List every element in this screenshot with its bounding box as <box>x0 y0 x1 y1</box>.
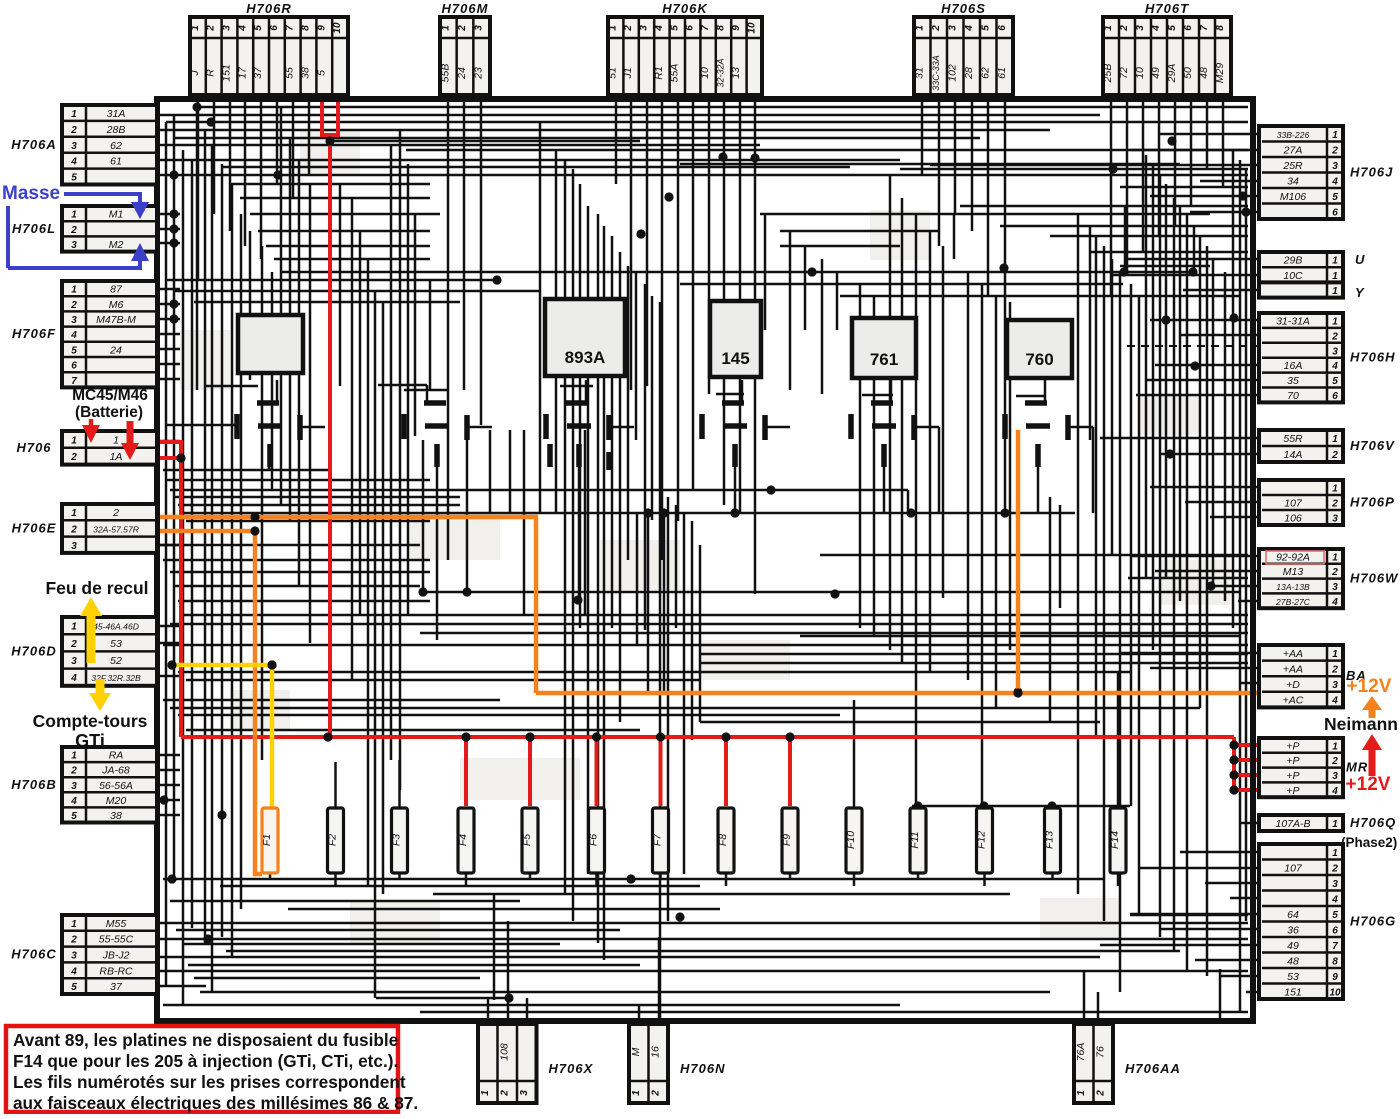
svg-text:2: 2 <box>70 639 77 650</box>
wire <box>1140 867 1259 870</box>
svg-text:13A-13B: 13A-13B <box>1276 582 1310 592</box>
wire <box>1150 319 1259 322</box>
junction dot <box>159 795 168 804</box>
wire <box>166 479 430 482</box>
red bus wire to MR connector <box>181 737 1262 790</box>
wire <box>1190 102 1193 206</box>
svg-text:RB-RC: RB-RC <box>99 965 133 977</box>
red arrow to H706 pin1 <box>82 419 100 443</box>
wire <box>420 591 1240 594</box>
svg-text:3: 3 <box>71 541 77 552</box>
wire <box>163 699 500 702</box>
wire <box>1160 133 1259 136</box>
svg-text:2: 2 <box>1331 450 1338 461</box>
wire <box>230 183 430 186</box>
wire <box>398 872 401 879</box>
wire <box>226 950 1180 953</box>
junction dots on colored wires <box>167 512 1022 697</box>
svg-text:32A-57.57R: 32A-57.57R <box>93 524 139 534</box>
svg-text:9: 9 <box>316 25 327 31</box>
svg-text:53: 53 <box>1287 971 1299 983</box>
svg-text:3: 3 <box>1332 680 1338 691</box>
relay contacts 893A <box>546 403 609 470</box>
svg-text:1: 1 <box>71 508 77 519</box>
svg-text:F6: F6 <box>588 834 600 846</box>
wire <box>309 184 312 643</box>
wire <box>917 806 920 808</box>
svg-text:3: 3 <box>71 656 77 667</box>
yellow arrow up feu de recul <box>80 597 102 663</box>
junction dot <box>267 660 276 669</box>
wire <box>1205 882 1259 885</box>
svg-text:1: 1 <box>1332 552 1338 563</box>
wire <box>644 284 647 630</box>
wire <box>170 623 1248 626</box>
junction dot <box>664 192 673 201</box>
svg-text:2: 2 <box>1119 25 1130 32</box>
fuse F2 <box>327 808 344 873</box>
wire <box>1090 251 1248 254</box>
wire <box>206 385 258 388</box>
wire <box>182 150 185 1005</box>
fuse F3 <box>391 808 408 873</box>
wire <box>221 164 224 937</box>
wire <box>178 600 430 603</box>
wire <box>174 496 460 499</box>
wire <box>1111 259 1114 555</box>
relay contacts K1 <box>237 403 300 467</box>
svg-text:Y: Y <box>1355 285 1365 300</box>
junction dot <box>906 508 915 517</box>
svg-text:(Phase2): (Phase2) <box>1341 835 1397 850</box>
svg-text:+P: +P <box>1286 740 1299 752</box>
wire <box>1130 149 1259 152</box>
svg-text:3: 3 <box>222 25 233 31</box>
junction dot <box>1241 207 1250 216</box>
svg-text:6: 6 <box>1183 25 1194 31</box>
wire <box>374 291 377 998</box>
wire <box>308 102 311 175</box>
wire <box>1193 226 1196 272</box>
svg-text:Masse: Masse <box>2 183 60 204</box>
svg-text:1: 1 <box>1332 741 1338 752</box>
wire <box>1230 897 1259 900</box>
svg-text:6: 6 <box>1332 391 1338 402</box>
wire <box>398 760 401 808</box>
wire <box>630 102 633 390</box>
wire <box>723 102 726 505</box>
svg-text:H706W: H706W <box>1350 571 1399 586</box>
wire <box>436 467 439 640</box>
connector H706D <box>11 617 157 686</box>
wire <box>680 163 1180 166</box>
wire <box>840 295 1240 298</box>
junction dot <box>169 238 178 247</box>
junction dot <box>167 874 176 883</box>
svg-text:M106: M106 <box>1280 191 1306 203</box>
red junction dots <box>176 136 1238 794</box>
wire <box>507 921 510 1024</box>
svg-text:72: 72 <box>1118 67 1130 79</box>
svg-text:5: 5 <box>1332 376 1338 387</box>
wire <box>186 679 700 682</box>
relay 761 <box>852 318 916 378</box>
wire <box>334 762 337 808</box>
svg-text:55-55C: 55-55C <box>99 934 134 946</box>
svg-text:107A-B: 107A-B <box>1275 818 1310 830</box>
wire <box>407 164 410 615</box>
wire <box>754 102 757 594</box>
wire <box>1130 913 1259 916</box>
wire <box>157 675 180 678</box>
wire <box>170 900 520 903</box>
wire <box>1126 102 1129 272</box>
wire <box>509 430 512 512</box>
junction dot <box>830 589 839 598</box>
wire <box>800 635 1240 638</box>
wire <box>1206 102 1209 169</box>
relay 145 <box>710 301 761 377</box>
svg-text:49: 49 <box>1287 940 1299 952</box>
wire <box>659 302 662 1024</box>
svg-text:H706L: H706L <box>12 221 56 236</box>
svg-text:4: 4 <box>70 966 77 977</box>
svg-text:3: 3 <box>474 25 485 31</box>
wire <box>853 872 856 886</box>
wire <box>165 122 168 985</box>
wire <box>789 231 792 390</box>
wire <box>1125 258 1259 261</box>
svg-text:37: 37 <box>252 66 264 79</box>
wire <box>708 102 711 394</box>
svg-text:1: 1 <box>71 210 77 221</box>
wire <box>859 284 862 628</box>
wire <box>196 106 1248 109</box>
wire <box>447 102 450 560</box>
junction dot <box>169 224 178 233</box>
junction dot <box>167 660 176 669</box>
wire <box>661 102 664 560</box>
wire <box>378 384 427 387</box>
junction dot <box>504 993 513 1002</box>
svg-text:2: 2 <box>70 300 77 311</box>
wire <box>276 380 279 401</box>
connector H706M <box>439 1 490 95</box>
wire <box>821 259 824 394</box>
svg-text:H706X: H706X <box>549 1061 594 1076</box>
wire <box>663 512 666 692</box>
wire <box>157 544 180 547</box>
wire <box>170 707 1200 710</box>
wire <box>276 102 279 184</box>
wire <box>1000 225 1248 228</box>
wire <box>420 632 1248 635</box>
svg-text:Compte-tours: Compte-tours <box>33 711 148 731</box>
relay contacts K2 <box>404 403 467 467</box>
svg-text:13: 13 <box>730 67 742 79</box>
svg-text:M55: M55 <box>106 918 127 930</box>
svg-text:+AA: +AA <box>1283 648 1303 660</box>
junction dot <box>203 934 212 943</box>
wire <box>173 114 176 879</box>
svg-text:3: 3 <box>71 240 77 251</box>
svg-text:27A: 27A <box>1283 144 1303 156</box>
wire <box>1120 652 1259 655</box>
junction dot <box>999 263 1008 272</box>
connector H706AA <box>1074 1024 1181 1103</box>
fuse F4 <box>457 808 474 873</box>
svg-text:1: 1 <box>1332 286 1338 297</box>
junction dot <box>750 153 759 162</box>
svg-text:1: 1 <box>71 751 77 762</box>
wire <box>302 426 325 429</box>
wire <box>186 729 640 732</box>
svg-text:64: 64 <box>1287 909 1299 921</box>
svg-text:2: 2 <box>1331 145 1338 156</box>
red fuse feed stubs <box>466 737 790 806</box>
wire <box>282 271 1194 274</box>
svg-text:107: 107 <box>1284 862 1303 874</box>
wire <box>157 228 180 231</box>
wire <box>741 380 744 401</box>
svg-text:49: 49 <box>1150 67 1162 79</box>
wire <box>157 625 180 628</box>
wire <box>271 272 274 490</box>
wire <box>157 242 180 245</box>
svg-text:28: 28 <box>963 67 975 80</box>
wire <box>414 214 417 436</box>
wire <box>157 754 180 757</box>
wire <box>716 393 744 396</box>
svg-text:M2: M2 <box>109 239 124 251</box>
svg-text:31A: 31A <box>107 108 126 120</box>
wire <box>204 131 207 944</box>
wire <box>1160 928 1259 931</box>
svg-text:48: 48 <box>1287 955 1299 967</box>
svg-text:5: 5 <box>1167 25 1178 31</box>
wire <box>1206 246 1209 976</box>
wire <box>1009 302 1012 650</box>
svg-text:36: 36 <box>1287 924 1299 936</box>
relay 760 <box>1007 320 1072 378</box>
wire <box>675 505 678 628</box>
wire <box>1159 175 1162 937</box>
svg-text:5: 5 <box>71 982 77 993</box>
wire <box>907 490 910 513</box>
wire <box>1150 486 1259 489</box>
wire <box>700 653 1248 656</box>
wire <box>367 259 370 886</box>
wire <box>627 266 630 560</box>
wire <box>1103 246 1106 921</box>
wire <box>1246 991 1259 994</box>
wire <box>334 872 337 886</box>
wire <box>157 956 1100 959</box>
svg-text:6: 6 <box>269 25 280 31</box>
wire <box>917 872 920 879</box>
wire <box>182 943 560 946</box>
wire <box>1049 497 1052 722</box>
wire <box>1083 970 1086 1024</box>
svg-text:3: 3 <box>1332 346 1338 357</box>
svg-text:2: 2 <box>1331 863 1338 874</box>
svg-text:4: 4 <box>70 796 77 807</box>
svg-text:2: 2 <box>70 766 77 777</box>
svg-text:H706D: H706D <box>11 643 56 658</box>
svg-text:760: 760 <box>1025 350 1053 369</box>
wire <box>862 394 893 397</box>
svg-text:1: 1 <box>71 435 77 446</box>
svg-text:F11: F11 <box>909 831 921 848</box>
wire <box>404 389 448 392</box>
svg-text:4: 4 <box>1331 176 1338 187</box>
wire <box>266 245 430 248</box>
svg-text:76: 76 <box>1094 1046 1106 1058</box>
relay contacts 761 <box>851 403 914 467</box>
svg-text:J1: J1 <box>622 67 634 79</box>
svg-text:5: 5 <box>253 25 264 31</box>
wire <box>463 102 466 390</box>
connector H706G <box>1259 844 1396 999</box>
junction dot <box>462 587 471 596</box>
svg-text:U: U <box>1355 252 1365 267</box>
wire <box>647 512 650 692</box>
wire <box>188 964 640 967</box>
connector H706E <box>12 504 157 553</box>
wire <box>420 1011 1248 1014</box>
wire <box>274 258 430 261</box>
svg-text:31: 31 <box>913 67 925 79</box>
svg-text:5: 5 <box>71 173 77 184</box>
svg-text:H706S: H706S <box>941 1 986 16</box>
wire <box>220 885 700 888</box>
svg-text:2: 2 <box>1331 756 1338 767</box>
svg-text:151: 151 <box>221 64 233 82</box>
svg-text:5: 5 <box>71 345 77 356</box>
svg-text:F7: F7 <box>652 833 664 846</box>
svg-text:2: 2 <box>70 524 77 535</box>
svg-text:3: 3 <box>1332 771 1338 782</box>
svg-text:F8: F8 <box>717 834 729 846</box>
connector H706W <box>1259 549 1399 608</box>
wire <box>466 440 469 592</box>
svg-text:4: 4 <box>70 673 77 684</box>
wire <box>178 504 460 507</box>
wire <box>595 872 598 886</box>
fuse-box board outline <box>157 99 1253 1021</box>
svg-text:JB-J2: JB-J2 <box>102 950 130 962</box>
svg-text:+12V: +12V <box>1346 774 1391 795</box>
connector H706F <box>12 281 157 387</box>
wire <box>351 198 354 680</box>
svg-text:H706A: H706A <box>11 137 56 152</box>
svg-text:17: 17 <box>236 66 248 79</box>
scan tone patches <box>300 130 360 175</box>
wire <box>1050 235 1248 238</box>
junction dot <box>1165 449 1174 458</box>
svg-text:1: 1 <box>71 919 77 930</box>
junction dot <box>217 810 226 819</box>
svg-text:52: 52 <box>110 655 122 667</box>
wire <box>1220 975 1259 978</box>
wire <box>1145 379 1259 382</box>
wire <box>611 236 614 628</box>
wire <box>166 279 497 282</box>
wire <box>1145 155 1148 578</box>
wire <box>912 805 1130 808</box>
wire <box>667 497 670 921</box>
wire <box>1232 150 1235 628</box>
svg-text:1: 1 <box>1332 649 1338 660</box>
fuse F10 <box>845 808 862 873</box>
wire <box>529 872 532 879</box>
svg-text:MC45/M46: MC45/M46 <box>72 387 148 404</box>
svg-text:3: 3 <box>1332 582 1338 593</box>
wire <box>890 380 893 401</box>
svg-text:38: 38 <box>110 810 122 822</box>
wire <box>1180 851 1259 854</box>
connector H706 <box>16 431 157 465</box>
svg-text:3: 3 <box>71 951 77 962</box>
wire <box>916 426 939 429</box>
wire <box>1059 505 1062 608</box>
svg-text:3: 3 <box>519 1090 530 1096</box>
svg-text:2: 2 <box>1331 567 1338 578</box>
junction dot <box>1167 136 1176 145</box>
wire <box>1037 467 1040 513</box>
wire <box>182 614 1248 617</box>
junction dot <box>169 299 178 308</box>
wire <box>789 872 792 879</box>
wire <box>1155 364 1259 367</box>
svg-text:2: 2 <box>206 25 217 32</box>
svg-text:38: 38 <box>300 67 312 79</box>
wire <box>163 469 330 472</box>
connector H706P <box>1259 480 1395 525</box>
connector H706B <box>11 747 157 823</box>
svg-text:4: 4 <box>1331 361 1338 372</box>
svg-text:4: 4 <box>654 25 665 32</box>
wire <box>186 520 430 523</box>
wire <box>820 554 1248 557</box>
wire <box>1200 180 1259 183</box>
svg-text:4: 4 <box>70 330 77 341</box>
wire <box>1240 682 1259 685</box>
wire <box>166 424 236 427</box>
wire <box>1120 186 1248 189</box>
connector H706J <box>1259 126 1393 219</box>
svg-text:7: 7 <box>71 376 77 387</box>
svg-text:23: 23 <box>473 67 485 80</box>
wire <box>399 131 402 790</box>
wire <box>174 290 540 293</box>
svg-text:56-56A: 56-56A <box>99 780 133 792</box>
svg-text:145: 145 <box>721 349 749 368</box>
wire <box>359 231 362 615</box>
yellow wire H706D pin3 (feu de recul) <box>172 665 272 809</box>
svg-text:16A: 16A <box>1284 360 1303 372</box>
svg-text:5: 5 <box>71 811 77 822</box>
junction dot <box>192 102 201 111</box>
wire <box>1100 944 1259 947</box>
svg-text:5: 5 <box>1332 910 1338 921</box>
svg-text:F1: F1 <box>261 834 273 846</box>
svg-text:6: 6 <box>1332 925 1338 936</box>
svg-text:1: 1 <box>1332 271 1338 282</box>
junction dot <box>1188 267 1197 276</box>
svg-text:31-31A: 31-31A <box>1276 315 1310 327</box>
svg-text:2: 2 <box>457 25 468 32</box>
